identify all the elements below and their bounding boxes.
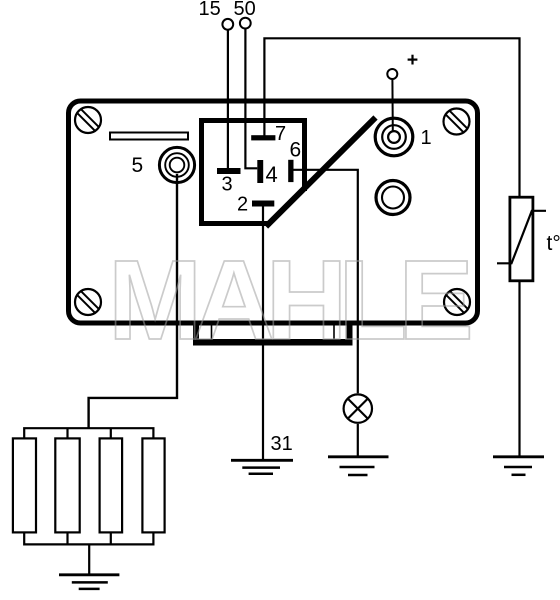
glow plug R2 bbox=[55, 438, 79, 532]
pin 6 bbox=[288, 160, 293, 182]
wire terminal 5 to glow plugs bbox=[89, 174, 177, 428]
glow plug top stubs bbox=[68, 428, 111, 438]
relay body K1 (outline) bbox=[69, 101, 478, 323]
+ connector circle bbox=[387, 69, 397, 79]
terminal 50 top connector circle bbox=[240, 18, 251, 29]
screw bottom-right bbox=[444, 289, 470, 315]
pin 2 bbox=[252, 201, 274, 207]
svg-text:4: 4 bbox=[266, 162, 278, 187]
svg-text:6: 6 bbox=[290, 139, 302, 162]
ground glow plugs bbox=[59, 575, 119, 589]
glow plug R3 bbox=[100, 438, 123, 532]
wire pin 2 to ground 31 bbox=[262, 207, 264, 460]
wire 15 to pin 3 bbox=[227, 30, 229, 168]
glow plug R1 bbox=[13, 438, 36, 532]
svg-text:15: 15 bbox=[199, 0, 221, 20]
label plate bar bbox=[110, 133, 188, 140]
pin 3 bbox=[217, 168, 241, 174]
glow plug top bus bbox=[24, 428, 153, 438]
ground lamp bbox=[328, 457, 389, 475]
wire lamp to ground bbox=[357, 424, 359, 457]
lamp H1 bbox=[344, 394, 372, 422]
pin 7 bbox=[251, 135, 275, 140]
wire pin 6 to lamp bbox=[294, 170, 358, 393]
svg-text:50: 50 bbox=[234, 0, 256, 20]
svg-text:3: 3 bbox=[222, 174, 233, 196]
mounting hole circle bbox=[376, 181, 410, 215]
screw bottom-left bbox=[75, 289, 101, 315]
svg-text:MAHLE: MAHLE bbox=[108, 237, 469, 363]
thermistor symbol bbox=[497, 211, 546, 263]
thermistor B1 body bbox=[510, 197, 533, 281]
battery + terminal bbox=[408, 55, 418, 65]
connector box bbox=[202, 121, 305, 224]
terminal 5 bbox=[159, 147, 194, 182]
screw top-right bbox=[444, 109, 470, 135]
svg-text:t°: t° bbox=[547, 232, 560, 255]
switch blade diagonal bbox=[266, 118, 376, 227]
svg-text:5: 5 bbox=[132, 154, 144, 177]
relay body K1 (fill) bbox=[69, 101, 478, 323]
glow plug bottom stubs bbox=[68, 532, 111, 544]
wire + to terminal 1 bbox=[391, 79, 393, 131]
glow plug R4 bbox=[142, 438, 164, 532]
ground thermistor bbox=[493, 457, 544, 475]
wire 50 to pin 4 bbox=[245, 29, 257, 169]
screw top-left bbox=[75, 107, 101, 133]
wire thermistor to ground bbox=[518, 281, 520, 457]
terminal 15 top connector circle bbox=[222, 19, 233, 30]
wire glow plugs to ground bbox=[88, 544, 90, 574]
glow plug bottom bus bbox=[24, 532, 153, 544]
svg-text:1: 1 bbox=[421, 127, 432, 149]
svg-text:2: 2 bbox=[237, 194, 248, 216]
pin 4 bbox=[257, 160, 263, 183]
bottom connector tab bbox=[193, 323, 353, 346]
svg-text:7: 7 bbox=[275, 123, 286, 145]
wire pin7 to thermistor top bbox=[264, 38, 519, 197]
terminal 1 bbox=[375, 118, 413, 156]
ground 31 bbox=[231, 460, 293, 474]
svg-text:31: 31 bbox=[271, 433, 293, 455]
